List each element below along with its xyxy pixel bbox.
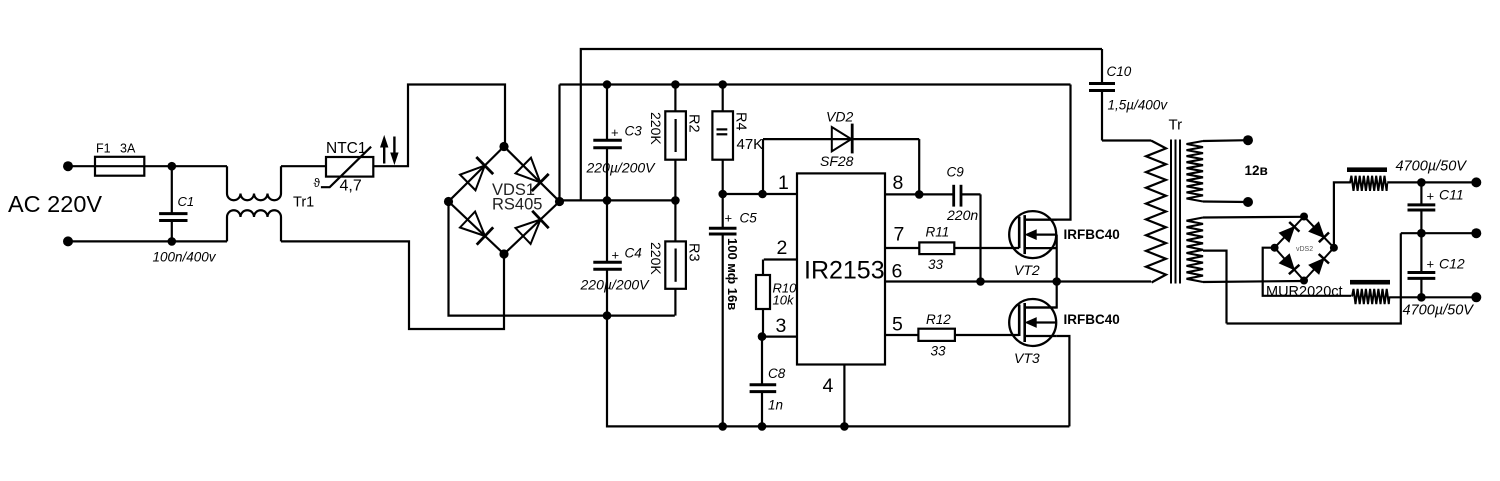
inductor L2 (bottom choke) [1350,280,1390,304]
resistor R10 10k [756,260,797,337]
node bridge right [555,197,564,206]
svg-text:100n/400v: 100n/400v [153,250,217,265]
pin 3 wire [762,336,797,338]
resistor R3 220K [648,200,702,315]
node C1 top [168,162,177,171]
wire AC bottom left [68,240,227,242]
svg-text:6: 6 [892,261,903,283]
node bridge top [499,142,508,151]
node bridge bottom [499,249,508,258]
svg-text:F1: F1 [96,142,111,156]
svg-text:C4: C4 [625,246,642,261]
wire mid output rail [1401,232,1477,234]
node C3 top [603,80,612,89]
svg-text:+: + [1427,189,1435,204]
wire bridge+ up to DC bus [558,85,560,202]
node C11/C12 mid [1417,229,1426,238]
wire L1 to +out [1387,181,1476,183]
svg-text:47K: 47K [737,136,764,153]
resistor R12 33 [918,312,1019,359]
node bridge left [444,197,453,206]
svg-text:NTC1: NTC1 [326,140,366,157]
svg-text:+: + [1427,257,1435,272]
resistor R4 47K [712,85,763,195]
bridge diode D2 (top-right) [515,158,548,191]
pin 5 wire [885,334,918,336]
svg-text:Tr1: Tr1 [293,195,314,211]
svg-text:IRFBC40: IRFBC40 [1064,312,1120,327]
svg-text:100 мф 16в: 100 мф 16в [725,238,740,310]
VDS2 diode c [1280,254,1300,274]
svg-text:VT2: VT2 [1014,262,1040,278]
svg-text:+: + [725,211,733,226]
svg-text:4: 4 [823,375,834,397]
svg-text:3A: 3A [120,142,136,156]
svg-text:IR2153: IR2153 [804,257,885,285]
wire fuse to C1 node [144,165,227,167]
bridge diode D1 (left-top) [460,157,493,190]
svg-text:33: 33 [931,344,947,359]
VDS2 diode d [1309,254,1329,274]
svg-text:1n: 1n [768,398,783,413]
svg-text:12в: 12в [1245,163,1268,178]
capacitor C11 [1408,182,1464,233]
svg-text:R11: R11 [926,225,950,240]
capacitor C4 220u/200V [580,200,651,315]
svg-text:220K: 220K [648,242,664,275]
interchange arrows [381,137,398,164]
fuse F1 3A [95,142,144,176]
bridge rectifier VDS2 MUR2020ct frame [1275,217,1334,281]
svg-text:Tr: Tr [1169,117,1183,134]
wire sec2 bottom to VDS2 bottom [1203,281,1304,282]
node VD2 anode [758,190,767,199]
svg-text:R12: R12 [926,312,951,327]
svg-text:SF28: SF28 [820,153,854,169]
svg-text:IRFBC40: IRFBC40 [1064,227,1120,242]
capacitor C5 100mf 16v [709,194,757,426]
svg-text:+: + [612,248,620,263]
choke Tr1 top winding [227,166,281,200]
capacitor C12 [1408,233,1465,297]
svg-text:4,7: 4,7 [340,178,362,195]
svg-text:220K: 220K [648,112,664,145]
pin 1 Vcc wire [723,193,797,195]
node C3 bottom [603,196,612,205]
wire sec2 top to VDS2 [1203,216,1304,219]
svg-text:C5: C5 [740,211,758,226]
terminal sec1 bottom [1243,197,1253,207]
pin 7 wire [885,247,919,249]
svg-text:2: 2 [777,237,788,259]
wire bridge- down [449,202,675,316]
wire sec1 top terminal [1203,139,1248,142]
node C8 bottom on 0V bus [758,422,767,431]
capacitor C1 100n/400v [153,166,217,264]
svg-text:C10: C10 [1107,64,1132,79]
svg-text:C1: C1 [178,194,195,209]
wire C4 node down to 0V bus [607,316,1069,427]
svg-text:vDS2: vDS2 [1296,246,1313,253]
svg-text:ϑ: ϑ [314,176,321,190]
svg-text:8: 8 [893,172,904,194]
wire NTC1 to bridge AC1 [373,85,505,167]
resistor R11 33 [919,225,1019,273]
terminal AC neutral input [63,236,73,246]
node C1 bottom [168,237,177,246]
wire AC bottom to bridge AC2 [281,241,504,329]
svg-text:RS405: RS405 [492,196,542,214]
svg-text:1: 1 [778,172,789,194]
terminal sec1 top [1243,135,1253,145]
pin 2 wire [764,258,797,260]
terminal -out [1471,292,1481,302]
wire midpoint bus (top) [581,49,1102,200]
svg-text:+: + [611,125,619,140]
svg-text:5: 5 [892,314,903,336]
transformer secondary winding 2 [1187,218,1204,283]
wire VDS2 right corner up to choke L1 [1334,182,1350,247]
transformer core [1171,140,1180,284]
node C12 bottom [1417,293,1426,302]
wire L2 to -out [1389,296,1476,298]
node pin3 [758,332,767,341]
svg-text:3: 3 [776,315,787,337]
svg-text:C12: C12 [1439,256,1465,272]
op-amp U1 IR2153 body [797,173,885,364]
svg-text:1,5µ/400v: 1,5µ/400v [1108,98,1169,113]
svg-text:7: 7 [894,224,905,246]
wire tap bus bottom [1227,233,1401,323]
VDS2 diode a [1280,222,1300,242]
svg-text:C3: C3 [625,124,643,139]
node VDS2 left [1271,244,1279,252]
svg-text:R3: R3 [685,243,701,262]
bridge rectifier VDS1 RS405 frame [449,147,560,255]
transformer secondary winding 1 [1187,141,1204,202]
node R4 bottom / Vcc [718,190,727,199]
svg-text:MUR2020ct: MUR2020ct [1266,284,1343,300]
node C11 top [1417,178,1426,187]
wire +310V DC bus [560,83,1071,85]
svg-text:AC 220V: AC 220V [8,191,102,217]
wire choke to NTC1 [281,165,326,167]
inductor L1 (top choke) [1347,167,1387,191]
terminal +out [1471,177,1481,187]
wire sec1 bottom terminal [1203,200,1248,203]
node VDS2 top [1300,213,1308,221]
capacitor C9 220n [946,165,981,282]
node C9 to VS rail [976,277,985,286]
node pin4 on 0V bus [840,422,849,431]
node R2 top [671,80,680,89]
pin 4 wire [843,365,845,427]
capacitor C3 220u/200V [586,85,657,201]
node VD2 cathode / pin8 [915,190,924,199]
svg-text:R2: R2 [685,114,701,133]
svg-text:VT3: VT3 [1014,350,1040,366]
svg-text:4700µ/50V: 4700µ/50V [1403,303,1475,319]
svg-text:220µ/200V: 220µ/200V [580,277,651,293]
VDS2 diode b [1309,222,1329,242]
node VT2 source / VS [1052,277,1061,286]
pin 6 wire VS rail [885,280,1151,282]
terminal mid out [1471,228,1481,238]
pin 8 wire [885,193,954,195]
transistor VT2 IRFBC40 [1009,85,1120,282]
wire midline [560,199,677,201]
wire sec2 center tap [1203,251,1227,324]
thermistor NTC1 4,7 [314,140,374,195]
wire AC top left [68,165,95,167]
node R2 bottom [671,196,680,205]
choke Tr1 bottom winding [227,210,281,241]
bridge diode D3 (left-bottom) [460,212,493,245]
node VDS2 bottom [1300,277,1308,285]
svg-text:220µ/200V: 220µ/200V [586,160,657,176]
node VDS2 right [1330,244,1338,252]
node C4 bottom [603,311,612,320]
terminal AC line input [63,161,73,171]
node R4 top [718,80,727,89]
diode VD2 SF28 [763,109,919,195]
resistor R2 220K [648,85,702,201]
node C5 bottom on 0V bus [718,422,727,431]
capacitor C10 1,5u/400v [1089,49,1168,141]
svg-text:10k: 10k [773,293,795,308]
svg-text:220n: 220n [946,207,978,223]
wire VDS2 left corner to choke L2 [1263,248,1351,296]
svg-text:C11: C11 [1439,187,1464,203]
svg-text:C8: C8 [768,366,786,381]
transformer primary winding [1146,141,1166,283]
svg-text:R4: R4 [732,112,748,131]
transistor VT3 IRFBC40 [1009,282,1120,427]
svg-text:C9: C9 [947,165,965,180]
svg-text:33: 33 [928,257,944,272]
capacitor C8 1n [750,337,786,427]
svg-text:VD2: VD2 [826,109,853,125]
svg-text:4700µ/50V: 4700µ/50V [1396,159,1468,175]
bridge diode D4 (bottom-right) [515,211,548,244]
